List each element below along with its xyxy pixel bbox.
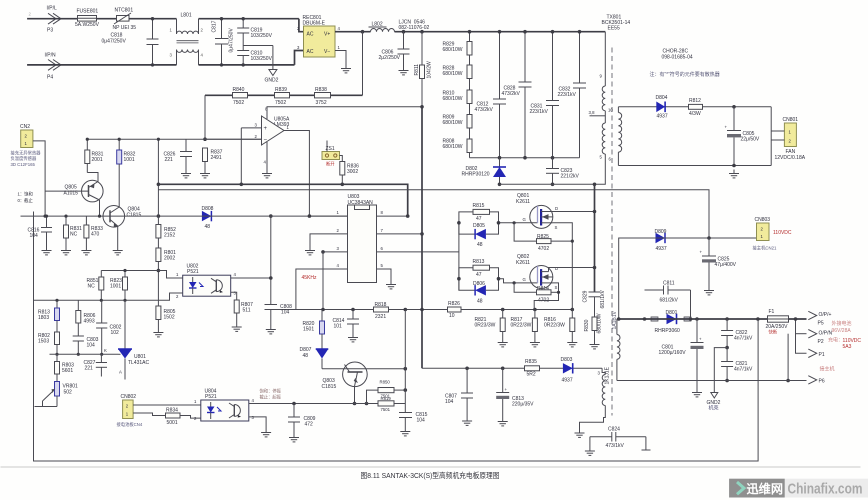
svg-text:4/3W: 4/3W [689,111,701,117]
svg-text:D805: D805 [473,223,485,229]
svg-text:C817: C817 [212,20,218,32]
svg-text:1503: 1503 [38,339,49,345]
resistor R839 [275,87,290,106]
wire pin1 [309,210,347,216]
node [100,299,103,302]
wire CN802 pin1 [133,413,165,416]
svg-text:4937: 4937 [657,114,668,120]
capacitor C819 [237,17,272,51]
label temp sensor note [11,150,42,168]
resistor R836 [340,162,359,187]
svg-text:470: 470 [91,232,100,238]
svg-text:680/10W: 680/10W [443,71,463,77]
svg-text:EE55: EE55 [608,26,620,32]
resistor R809 [443,104,473,129]
svg-text:681/1kV: 681/1kV [600,289,606,308]
svg-text:R812: R812 [689,98,701,104]
node [523,156,527,160]
node [203,137,207,141]
node [465,367,469,371]
svg-text:1001: 1001 [124,157,135,163]
node [501,308,505,312]
wire fan rail top [618,106,771,108]
wire drain2 [549,268,595,272]
resistor R817 [511,310,540,347]
svg-text:Chinafix.com: Chinafix.com [788,482,863,498]
wire [97,18,117,20]
svg-text:截止：起振: 截止：起振 [260,394,282,401]
ground op-amp pin4 [262,142,272,178]
optocoupler U802 P521 [176,264,237,300]
svg-text:511: 511 [243,308,251,314]
svg-text:R811: R811 [414,64,420,76]
svg-text:CN801: CN801 [783,117,799,123]
node I/P/N arrow P4 [45,53,62,81]
capacitor C805 electrolytic [725,107,760,166]
svg-text:C811: C811 [663,281,675,287]
svg-text:4n7/1kV: 4n7/1kV [734,336,753,342]
svg-text:图8.11 SANTAK-3CK(S)型高频机充电板原理图: 图8.11 SANTAK-3CK(S)型高频机充电板原理图 [361,470,500,480]
wire pin3 [321,246,347,254]
svg-text:F1: F1 [769,309,775,315]
resistor R802 [38,332,60,356]
wire pin3 [241,127,261,129]
svg-text:102: 102 [111,330,120,336]
transistor Q803 C1815 [322,362,368,404]
svg-text:P2: P2 [818,339,824,345]
svg-text:RHRP3060: RHRP3060 [655,328,681,334]
node [402,30,406,34]
resistor R851 NC [87,271,104,301]
svg-text:4937: 4937 [656,246,667,252]
svg-text:O/P/N: O/P/N [819,331,833,337]
gate drive vertical [458,223,460,290]
transformer core dashed [611,48,613,416]
svg-text:C1815: C1815 [322,384,337,390]
capacitor C827 [84,354,108,376]
svg-text:10: 10 [449,313,455,319]
node [533,308,537,312]
svg-text:104: 104 [445,399,454,405]
wire bus corner down [204,95,206,139]
wire [295,51,304,65]
resistor R819 [378,396,394,412]
label opto note [260,388,282,401]
resistor R813 lower [38,299,60,332]
resistor R831b NC [61,215,82,255]
svg-text:96V/28A: 96V/28A [832,328,852,334]
node [786,379,790,383]
svg-text:K2611: K2611 [516,260,530,266]
capacitor C821 [721,348,753,383]
fuse F1 [766,309,789,336]
svg-text:TL431AC: TL431AC [128,360,150,366]
svg-text:098-01685-04: 098-01685-04 [662,55,693,61]
svg-text:0μ47/250V: 0μ47/250V [229,28,235,53]
ground chassis left [575,429,585,437]
svg-text:R830: R830 [584,319,590,331]
diode D809 [655,229,667,252]
node [457,277,461,281]
wire fb rail [101,270,158,272]
svg-text:1501: 1501 [303,327,314,333]
transistor Q804 C1815 [103,205,141,255]
capacitor C803 [73,336,99,356]
wire opto3 gnd [249,417,271,437]
svg-text:K2611: K2611 [516,199,530,205]
svg-text:P4: P4 [47,75,53,81]
svg-text:7501: 7501 [381,407,391,412]
wire opto4 out [249,403,294,405]
node [695,317,699,321]
node P6 arrow [808,376,825,385]
svg-text:12VDC/0.18A: 12VDC/0.18A [775,155,806,161]
wire pin2 [205,138,262,140]
node [643,317,647,321]
resistor R816 [544,310,577,347]
node [404,308,408,312]
rail drain bus [594,184,596,292]
resistor chain R829 [443,30,473,55]
svg-text:680/10W: 680/10W [443,120,463,126]
svg-text:48: 48 [477,242,483,248]
svg-text:D803: D803 [561,357,573,363]
svg-text:迅维网: 迅维网 [747,481,784,496]
svg-text:48: 48 [303,353,309,359]
svg-text:P521: P521 [205,394,217,400]
svg-text:NP UEI 35: NP UEI 35 [113,25,137,31]
diode D805 [459,223,499,248]
resistor R826 [448,301,462,319]
node [689,317,693,321]
transformer tap 3,8 [589,110,606,116]
wire primary return bus [500,160,606,184]
svg-text:饱和：停振: 饱和：停振 [260,388,282,395]
svg-text:S: S [555,225,558,230]
transformer winding W3 [612,310,620,380]
svg-text:A: A [119,370,122,375]
svg-text:P521: P521 [187,269,199,275]
resistor R812 [689,98,703,117]
wire pin5 ground [377,263,397,289]
svg-text:机壳: 机壳 [709,405,719,412]
wire output branch [796,319,807,353]
node [240,183,244,187]
svg-text:P3: P3 [47,28,53,34]
resistor R833 [81,216,103,255]
resistor R818 [374,302,389,320]
svg-text:R813: R813 [473,259,485,265]
wire gate1 [499,222,538,224]
wire N input [27,64,176,66]
wire loop right [690,290,692,319]
svg-text:P1: P1 [819,352,825,358]
rail sense vertical [404,310,406,413]
transformer winding W4 [580,366,611,429]
resistor R803 [55,354,75,381]
svg-text:7502: 7502 [233,100,244,106]
node [157,269,161,273]
wire base rail [294,403,378,405]
svg-text:221: 221 [85,366,94,372]
wire opto pin1 [158,271,182,279]
node [732,164,736,168]
resistor R806 [76,300,96,336]
svg-text:S: S [555,285,558,290]
wire snubber bus [470,157,580,159]
rail left vertical [157,139,159,224]
ground GND2 top [243,46,278,84]
svg-text:C824: C824 [608,427,620,433]
resistor R811 [414,32,433,107]
label battery note [832,320,852,334]
wire D809 rail [645,237,757,239]
wire pin8 supply [267,107,422,119]
svg-text:104: 104 [281,310,290,316]
resistor R852 [156,225,176,249]
resistor R801 [156,248,176,306]
resistor R815 [459,203,499,223]
capacitor C810 [237,51,272,67]
capacitor C816 [28,215,53,255]
capacitor C813 electrolytic [496,368,534,426]
potentiometer VR801 [35,382,79,407]
svg-text:22μ/50V: 22μ/50V [741,137,760,143]
resistor R805 [153,306,175,337]
wire fan rail bottom [618,165,771,167]
capacitor C801 electrolytic [659,319,704,397]
svg-text:3002: 3002 [347,169,358,175]
node [420,105,424,109]
resistor R813 [459,259,499,279]
diode D801 RHRP3060 [651,310,691,334]
optocoupler U804 P521 [194,389,255,422]
svg-text:104: 104 [30,233,39,239]
wire opto pin4 [231,277,271,279]
svg-text:101: 101 [334,324,343,330]
svg-text:外接电池: 外接电池 [832,320,852,327]
node [571,308,575,312]
svg-text:D804: D804 [656,95,668,101]
wire gate2 [499,279,538,283]
svg-text:AC: AC [307,32,314,38]
ground GND2 chassis [707,348,728,412]
wire [789,318,807,320]
connector CN801 [771,117,806,161]
page rule line [1,466,861,468]
jumper ZS1 [322,141,342,168]
node [551,156,555,160]
svg-text:R819: R819 [381,396,392,401]
svg-text:0R22/3W: 0R22/3W [544,323,565,329]
svg-text:4937: 4937 [562,378,573,384]
svg-text:5001: 5001 [167,420,178,426]
rectifier REC801 DBU6M-E [297,15,341,57]
node [292,402,296,406]
wire aux rail [422,367,602,369]
capacitor C814 [333,310,360,342]
wire base rail to IC [158,215,347,217]
svg-text:负温度传感器: 负温度传感器 [11,155,37,162]
svg-text:220μ/35V: 220μ/35V [512,402,534,408]
svg-text:221/2kV: 221/2kV [561,174,580,180]
node [593,266,597,270]
connector CN2 [20,124,33,148]
svg-text:R826: R826 [448,301,460,307]
diode D804 [656,95,668,120]
diode D807 [300,347,329,369]
svg-text:223/1kV: 223/1kV [530,109,549,115]
wire source1 [553,223,573,310]
svg-text:7502: 7502 [275,100,286,106]
node [98,215,101,218]
capacitor C829 [583,289,607,317]
wire [199,18,299,20]
svg-text:FUSE801: FUSE801 [77,9,99,15]
rail Vcc vertical [421,107,423,369]
MOSFET Q802 K2611 [516,254,558,290]
node [351,308,355,312]
node [593,210,597,214]
node [157,138,160,141]
node junction [361,30,365,34]
svg-text:4n7/1kV: 4n7/1kV [734,367,753,373]
svg-text:接主机CN21: 接主机CN21 [753,245,777,252]
capacitor C822 [721,319,753,349]
resistor R820 [303,310,325,349]
resistor R850 [367,380,408,404]
op-amp U805A LM393 [255,107,290,146]
wire collector rail [322,368,405,370]
svg-text:104: 104 [87,343,96,349]
svg-text:0R22/3W: 0R22/3W [511,323,532,329]
svg-text:接电池板CN4: 接电池板CN4 [117,421,143,428]
watermark banner [729,479,868,498]
resistor R831 [85,138,104,173]
svg-text:断开: 断开 [326,161,335,168]
wire CN801 feed [770,107,772,166]
svg-text:2002: 2002 [164,256,175,262]
svg-text:473/2kV: 473/2kV [475,107,494,113]
wire base rail q [21,215,159,217]
resistor R807 [231,292,253,331]
svg-text:221: 221 [165,157,174,163]
resistor R837 [200,148,223,178]
wire drain1 [553,211,595,213]
svg-text:CN802: CN802 [121,394,137,400]
capacitor C815 [399,412,428,436]
wire sense rail [461,309,572,311]
wire return bus [617,380,807,382]
svg-text:1001: 1001 [110,284,121,290]
wire OPN stub [796,333,807,335]
wire R840 tap vertical [240,128,242,184]
svg-text:48: 48 [477,298,483,304]
wire CN2 out [33,141,45,216]
svg-text:1：饱和: 1：饱和 [18,191,33,198]
svg-text:R815: R815 [473,203,485,209]
svg-text:P6: P6 [819,379,825,385]
svg-text:681/2kV: 681/2kV [660,298,679,304]
svg-text:47: 47 [476,272,482,278]
svg-text:5A3: 5A3 [843,344,852,350]
wire op-amp output [284,131,309,217]
wire pin8 [377,210,410,218]
node [269,276,273,280]
node [557,291,560,294]
svg-text:1K1J1E: 1K1J1E [605,366,611,384]
capacitor C825 electrolytic [700,238,737,295]
node [420,308,424,312]
ground under C805 [729,170,739,178]
svg-text:R835: R835 [525,359,537,365]
svg-text:O/P/+: O/P/+ [819,312,832,318]
transformer primary winding bottom [600,123,606,160]
node [617,317,621,321]
svg-text:NC: NC [70,232,78,238]
transformer secondary winding top [608,107,622,166]
resistor R834 [166,408,201,427]
svg-text:I/P/N: I/P/N [45,53,57,59]
connector CN802 [117,394,143,428]
svg-text:R850: R850 [380,380,391,385]
wire pin7 [377,228,424,236]
svg-text:680/10W: 680/10W [443,144,463,150]
node [756,317,760,321]
resistor R810 [443,79,473,104]
NTC NTC801 [113,8,137,32]
svg-text:GND2: GND2 [265,78,279,84]
svg-text:680/10W: 680/10W [443,47,463,53]
transformer TX801 labels [602,15,631,32]
capacitor C806 [379,32,410,75]
svg-text:47μ/400V: 47μ/400V [715,262,737,268]
node [123,299,126,302]
svg-text:10: 10 [608,108,613,113]
capacitor C818 [102,17,159,67]
capacitor C809 [288,404,316,442]
svg-text:2491: 2491 [211,155,222,161]
svg-text:47: 47 [476,216,482,222]
svg-text:K: K [104,348,107,353]
svg-text:V−: V− [324,49,330,55]
resistor R828 [443,55,473,79]
node O/P/N arrow P2 [808,330,861,351]
node [308,214,312,218]
svg-text:110VDC: 110VDC [773,230,792,236]
label CHOR-28C [662,49,693,61]
node [457,221,461,225]
wire to R838 bus [362,32,364,96]
svg-text:473/2kV: 473/2kV [502,91,521,97]
svg-text:2321: 2321 [375,314,386,320]
bus mid grey [158,190,709,238]
capacitor C802 [96,300,122,356]
wire source2 [534,283,558,310]
node [498,156,502,160]
svg-text:RHRP30120: RHRP30120 [462,172,490,178]
wire output rail [617,318,768,320]
svg-text:I/P/L: I/P/L [47,6,58,12]
wire pin6 [377,246,459,252]
diode D803 [561,357,573,384]
capacitor C808 [265,214,293,334]
svg-text:502: 502 [64,390,73,396]
svg-text:2μ2/250V: 2μ2/250V [379,55,401,61]
wire [394,403,405,405]
bus mid dark [158,184,407,216]
shunt U801 TL431AC [118,300,150,379]
